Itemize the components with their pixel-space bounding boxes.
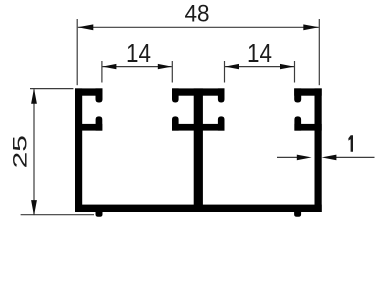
node 25 top arrow (31, 88, 37, 104)
node 14b left arrow (225, 64, 239, 69)
wire 48 dimension line (78, 26, 319, 28)
dimension 1 (wall thickness) (277, 156, 375, 158)
node top-right arm hook tab (294, 88, 301, 102)
node 14b right arrow (280, 64, 294, 69)
node 25 bottom arrow (31, 200, 37, 216)
wire 25 top extension line (30, 88, 73, 90)
dimension 14 (right) (225, 61, 295, 83)
wire 14b right extension line (294, 61, 296, 83)
svg-text:14: 14 (126, 40, 151, 69)
profile cross-section (black extrusion) (75, 88, 322, 216)
node top-left arm hook tab (96, 88, 103, 102)
node middle top bar right tab (218, 88, 225, 102)
wire 14a right extension line (171, 61, 173, 83)
wire top-left arm (75, 88, 103, 95)
value label 1 (348, 135, 353, 152)
node middle top bar left tab (172, 88, 179, 102)
dimension 25 (21, 89, 94, 215)
wire top-right arm (294, 88, 322, 95)
node middle second bar left tab (172, 116, 179, 130)
dimension 48 (77, 19, 319, 85)
dimension 14 (left) (102, 61, 172, 83)
wire 48 right extension line (318, 19, 320, 85)
svg-text:25: 25 (10, 135, 32, 168)
node middle second bar right tab (218, 116, 225, 130)
wire 25 dimension line (33, 89, 35, 214)
wire middle top bar (172, 88, 225, 95)
wire second-right arm (294, 124, 321, 131)
node left foot (96, 207, 103, 217)
svg-text:48: 48 (184, 0, 209, 27)
node 48 right arrow (303, 24, 319, 30)
svg-text:14: 14 (247, 40, 272, 69)
node 1 left arrow (points right at wall) (297, 155, 312, 161)
wire left wall (75, 88, 82, 212)
wire 14b dimension line (225, 66, 294, 68)
node second-right arm hook tab (294, 116, 301, 130)
node 48 left arrow (78, 24, 94, 30)
node right foot (294, 207, 301, 217)
node 14a left arrow (102, 64, 116, 69)
wire 14a left extension line (101, 61, 103, 83)
wire second-left arm (75, 124, 102, 131)
wire 25 bottom extension line (21, 214, 94, 216)
wire bottom bar (75, 205, 322, 212)
node 1 right arrow (points left at wall) (322, 155, 337, 161)
wire right wall (315, 88, 322, 212)
wire 1 left leader line (277, 156, 298, 158)
wire 14b left extension line (224, 61, 226, 83)
wire 14a dimension line (102, 66, 171, 68)
wire middle stem (194, 88, 203, 212)
node 14a right arrow (158, 64, 172, 69)
wire middle second bar (172, 124, 225, 131)
node second-left arm hook tab (96, 116, 103, 130)
wire 48 left extension line (76, 19, 78, 85)
wire 1 right leader line (336, 156, 375, 158)
